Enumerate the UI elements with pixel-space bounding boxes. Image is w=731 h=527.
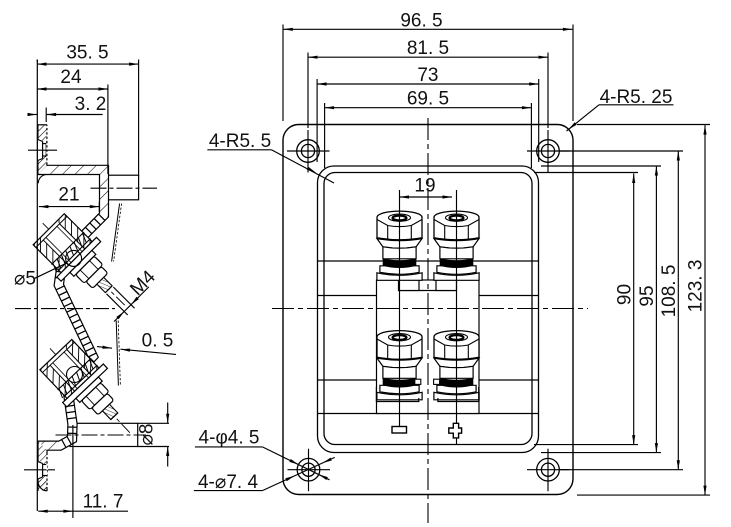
dim 108.5 bbox=[659, 151, 680, 470]
recess shelf line A bbox=[318, 260, 538, 262]
label M4 bbox=[113, 287, 134, 308]
recess shelf line B bbox=[318, 295, 538, 297]
wire hole upper post bbox=[66, 250, 82, 266]
top ear countersink bbox=[38, 140, 43, 161]
block tab left bbox=[399, 280, 420, 291]
dim 11.7 bbox=[38, 510, 128, 512]
plus polarity symbol bbox=[449, 423, 462, 438]
svg-text:24: 24 bbox=[60, 67, 82, 88]
dim 73 bbox=[317, 65, 539, 86]
terminal post upper (section) bbox=[23, 203, 145, 325]
dim 35.5 bbox=[37, 63, 139, 65]
left side view bbox=[14, 43, 176, 519]
mounting hole bottom-right bbox=[527, 449, 570, 492]
dim 90 bbox=[615, 174, 636, 445]
bottom ear countersink bbox=[38, 462, 43, 480]
post centerline right bbox=[456, 190, 458, 445]
bottom ear hole centerline bbox=[24, 469, 55, 471]
svg-text:73: 73 bbox=[417, 65, 438, 86]
wire hole lower post bbox=[67, 367, 83, 383]
front face edge bbox=[36, 60, 38, 512]
svg-text:4-R5. 5: 4-R5. 5 bbox=[209, 131, 271, 152]
top ear hole centerline bbox=[28, 149, 57, 151]
svg-text:⌀5: ⌀5 bbox=[14, 269, 36, 290]
bottom boss bbox=[70, 423, 138, 446]
bottom ear round end bbox=[38, 480, 47, 491]
dimensions bbox=[194, 10, 710, 495]
thin rear wall upper bbox=[112, 204, 120, 262]
svg-text:81. 5: 81. 5 bbox=[407, 38, 449, 59]
svg-text:108. 5: 108. 5 bbox=[659, 265, 680, 318]
svg-text:⌀8: ⌀8 bbox=[137, 423, 158, 445]
dim 21 bbox=[39, 206, 99, 208]
ear face serration top bbox=[46, 126, 48, 164]
svg-text:4-φ4. 5: 4-φ4. 5 bbox=[199, 428, 260, 449]
panel wall section bbox=[38, 125, 109, 491]
binding post lower-right bbox=[434, 331, 479, 400]
dim 96.5 bbox=[283, 10, 572, 31]
bottom boss centerline bbox=[56, 434, 147, 436]
recess shelf line D bbox=[318, 413, 538, 415]
fillet front face bbox=[38, 174, 47, 183]
left view horizontal centerline bbox=[15, 308, 115, 310]
front view bbox=[272, 118, 588, 523]
svg-text:21: 21 bbox=[58, 185, 79, 206]
ear face serration bottom bbox=[46, 455, 48, 488]
minus polarity symbol bbox=[392, 427, 407, 434]
dim 24 bbox=[37, 88, 108, 90]
dim dia8 bbox=[138, 422, 169, 424]
thin rear wall lower bbox=[116, 321, 118, 386]
lower cup left bbox=[376, 387, 418, 402]
lower band tab right bbox=[434, 379, 440, 384]
recess inner outline bbox=[324, 173, 532, 445]
top boss centerline bbox=[91, 187, 158, 189]
block tab right bbox=[436, 280, 457, 291]
mounting hole top-right bbox=[527, 130, 570, 173]
post centerline left bbox=[399, 190, 401, 427]
dim 81.5 bbox=[308, 38, 548, 59]
top boss bbox=[104, 175, 139, 200]
svg-text:95: 95 bbox=[637, 285, 658, 306]
svg-text:0. 5: 0. 5 bbox=[142, 331, 174, 352]
terminal block body bbox=[377, 280, 480, 414]
binding post upper-right bbox=[434, 211, 479, 280]
svg-text:11. 7: 11. 7 bbox=[83, 492, 124, 513]
svg-text:4-⌀7. 4: 4-⌀7. 4 bbox=[198, 472, 258, 493]
vertical centerline front view bbox=[427, 118, 429, 523]
dim 95 bbox=[637, 166, 658, 453]
terminal post lower (section) bbox=[30, 329, 150, 452]
binding post upper-left bbox=[377, 211, 422, 280]
mounting hole bottom-left bbox=[288, 449, 331, 492]
dim 3.2 bbox=[30, 114, 38, 116]
dim 123.3 bbox=[686, 125, 707, 495]
svg-text:123. 3: 123. 3 bbox=[686, 260, 707, 313]
dim 69.5 bbox=[325, 89, 532, 110]
horizontal centerline front view bbox=[272, 308, 588, 310]
svg-text:35. 5: 35. 5 bbox=[66, 43, 108, 64]
plate outline bbox=[283, 125, 573, 495]
svg-text:69. 5: 69. 5 bbox=[407, 89, 449, 110]
dim 19 bbox=[400, 176, 453, 199]
svg-text:3. 2: 3. 2 bbox=[75, 94, 107, 115]
lower cup right bbox=[438, 387, 479, 402]
binding post lower-left bbox=[377, 331, 422, 400]
mounting hole top-left bbox=[287, 130, 330, 173]
recess outer outline bbox=[318, 166, 539, 453]
terminal block notch step bbox=[399, 290, 457, 292]
lower band tab left bbox=[415, 379, 421, 384]
svg-text:90: 90 bbox=[615, 284, 636, 305]
svg-text:19: 19 bbox=[414, 176, 435, 197]
recess shelf line C bbox=[318, 379, 538, 381]
svg-text:96. 5: 96. 5 bbox=[400, 10, 442, 31]
